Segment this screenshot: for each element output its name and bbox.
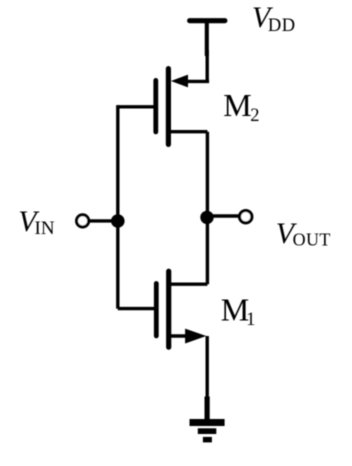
terminal VIN open circle xyxy=(77,215,89,227)
wire left vertical (input net) xyxy=(116,105,119,309)
svg-text:2: 2 xyxy=(250,106,259,126)
ground bar 1 xyxy=(190,419,225,426)
wire VDD stem xyxy=(205,21,209,56)
svg-text:DD: DD xyxy=(268,16,296,36)
wire VIN horizontal xyxy=(89,219,118,222)
ground bar 3 xyxy=(203,437,212,443)
transistor M2 channel bar xyxy=(166,69,171,145)
wire bottom vertical to ground xyxy=(205,336,208,420)
transistor M2 source arrow (points left into channel) xyxy=(171,75,188,88)
wire VOUT horizontal xyxy=(207,214,240,217)
transistor M1 channel bar xyxy=(166,271,171,347)
VDD supply bar xyxy=(190,18,225,23)
svg-text:IN: IN xyxy=(35,218,55,239)
node VIN junction dot xyxy=(111,214,125,228)
transistor M2 gate bar xyxy=(153,80,158,131)
wire right vertical (output net upper) xyxy=(206,132,209,285)
svg-text:OUT: OUT xyxy=(293,230,331,250)
wire M2 drain horizontal xyxy=(168,130,207,133)
wire M1 drain horizontal xyxy=(169,283,208,286)
svg-text:M: M xyxy=(221,292,249,328)
node VOUT junction dot xyxy=(200,211,213,224)
svg-text:1: 1 xyxy=(246,310,255,330)
ground bar 2 xyxy=(198,428,217,434)
terminal VOUT open circle xyxy=(240,211,252,223)
wire M2 gate horizontal xyxy=(118,105,156,108)
svg-text:M: M xyxy=(223,87,251,123)
transistor M1 gate bar xyxy=(154,284,159,336)
wire M1 source horizontal xyxy=(169,334,188,337)
wire ground stem (thicker) xyxy=(205,397,210,421)
transistor M1 source arrow (points right away from channel) xyxy=(185,329,206,344)
wire M1 gate horizontal xyxy=(118,307,156,310)
wire M2 source horizontal xyxy=(186,80,209,83)
